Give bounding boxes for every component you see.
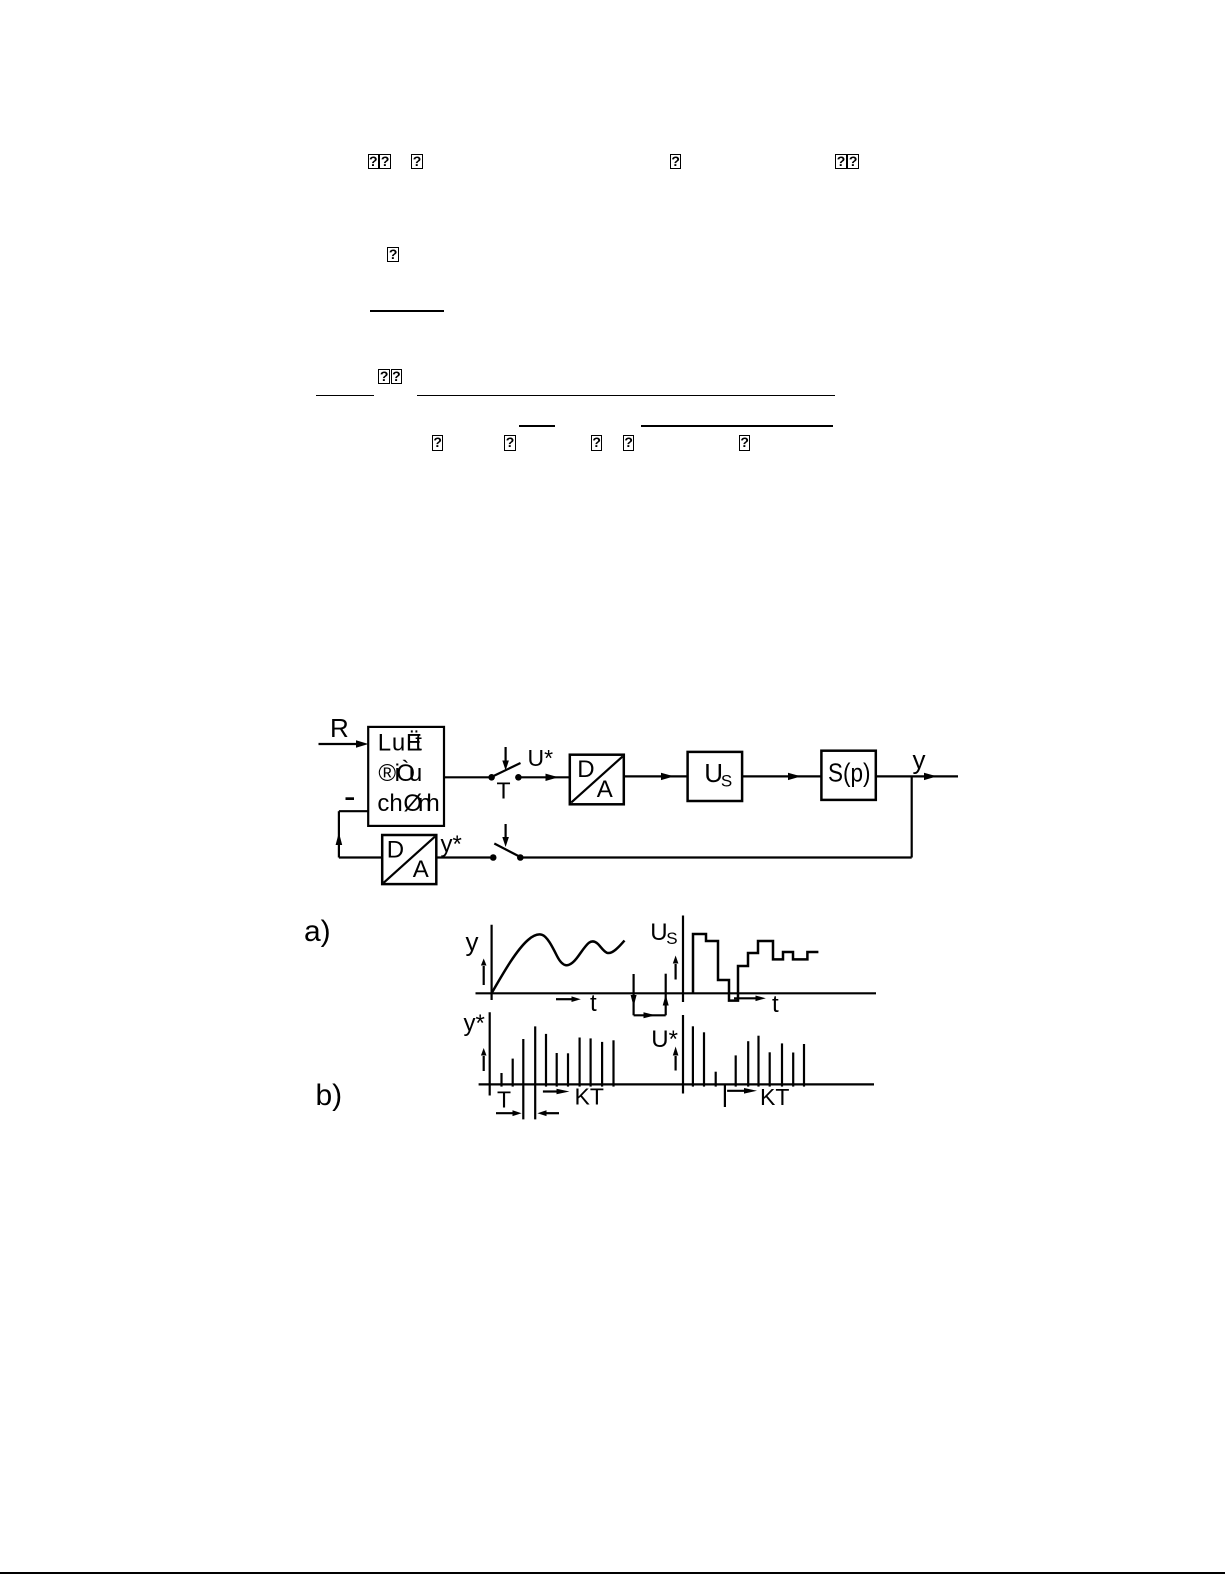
graph a t-axis (shared) (476, 992, 877, 994)
graph b y* impulse 6 (556, 1053, 558, 1087)
svg-text:A: A (413, 856, 429, 883)
svg-text:c: c (377, 790, 389, 817)
svg-text:D: D (577, 756, 594, 783)
svg-text:t: t (590, 990, 597, 1017)
graph a Us label (650, 919, 677, 948)
graph b U* impulse 7 (769, 1052, 771, 1086)
svg-text:u: u (392, 730, 405, 757)
wire D/A2 to summing path (339, 856, 382, 858)
wire feedback branch vertical (911, 776, 913, 857)
D/A U2 letter D (387, 837, 404, 864)
missing-glyph box row1-3 (411, 154, 423, 170)
underline row3 left (316, 395, 374, 397)
missing-glyph box row4-3 (591, 435, 603, 451)
wire output y with arrow (876, 773, 958, 780)
block S(p) plant (821, 751, 875, 800)
sampler switch T upper: left contact dot (488, 774, 495, 781)
missing-glyph box row1-2 (379, 154, 391, 170)
graph a staircase Us(t) (693, 934, 818, 1001)
graph b y* impulse 8 (578, 1038, 580, 1087)
D/A step symbol right line with up arrow (663, 974, 669, 1016)
svg-text:h: h (426, 790, 439, 817)
graph b y* impulse 4 with T tick (534, 1026, 536, 1119)
node U* label (528, 745, 554, 771)
sampler switch lower: blade (494, 844, 519, 857)
missing-glyph box row2 (387, 247, 399, 263)
graph a right t-axis arrow (734, 996, 766, 1002)
graph b T dim arrow right (496, 1110, 522, 1116)
graph b U* impulse 6 (757, 1036, 759, 1087)
label a) (304, 915, 331, 948)
sampler switch T upper: right contact dot (515, 774, 522, 781)
graph a y-axis small arrow (481, 959, 487, 986)
graph a response curve (492, 934, 625, 992)
graph b U* impulse 1 (692, 1026, 694, 1086)
sampler switch T upper: actuation arrow (502, 747, 509, 771)
missing-glyph box row1-4 (670, 154, 682, 170)
block D/A converter U2 (382, 835, 436, 884)
graph b y* impulse 9 (589, 1038, 591, 1086)
graph b KT label right (760, 1084, 789, 1110)
minus sign (346, 797, 355, 800)
svg-text:A: A (597, 776, 613, 803)
graph b y* impulse 2 (512, 1059, 514, 1087)
svg-text:L: L (378, 730, 391, 757)
wire lower sampler to D/A2 (437, 856, 491, 858)
graph b t-axis (shared) (479, 1083, 874, 1085)
missing-glyph box row4-5 (739, 435, 751, 451)
label T (497, 778, 511, 804)
graph b y* impulse 5 (545, 1034, 547, 1087)
graph a t label (590, 990, 597, 1017)
controller text line3 chOnh (377, 790, 439, 817)
graph a right t label (772, 991, 779, 1018)
wire Us to S(p) with arrow (742, 773, 821, 780)
missing-glyph box row1-1 (368, 154, 380, 170)
graph a Us axis small arrow (673, 956, 679, 980)
graph b y* impulse 7 (567, 1053, 569, 1086)
controller text line1 LuEt (378, 730, 423, 757)
svg-text:KT: KT (760, 1084, 789, 1110)
graph a axis y label (466, 927, 479, 957)
graph a y-axis (491, 925, 493, 1000)
svg-text:S: S (721, 771, 732, 790)
wire feedback up with arrow (336, 811, 343, 857)
sampler switch lower: right contact dot (517, 854, 524, 861)
Us block label (704, 758, 732, 790)
controller text line2 (r)iOu (378, 760, 422, 787)
wire sampler to D/A with arrow (522, 774, 570, 781)
underline row4 right (641, 425, 833, 427)
graph a t-axis arrow (556, 996, 581, 1002)
footer rule (0, 1572, 1225, 1574)
graph b y* axis (489, 1012, 491, 1095)
graph b y* label (464, 1010, 485, 1037)
node R input label (330, 713, 349, 743)
graph b U* impulse 10 (803, 1044, 805, 1087)
graph b y* impulse 11 (612, 1040, 614, 1086)
graph b T label (497, 1087, 511, 1113)
svg-text:y: y (913, 745, 926, 775)
D/A U1 letter A (597, 776, 613, 803)
block Us (688, 752, 743, 801)
graph b y* axis small arrow (481, 1048, 487, 1071)
missing-glyph box row4-4 (623, 435, 635, 451)
missing-glyph box row3-1 (378, 369, 390, 385)
D/A U1 letter D (577, 756, 594, 783)
wire feedback horizontal (520, 856, 912, 858)
S(p) label (828, 758, 871, 788)
block controller (Luat dieu chinh) (368, 727, 444, 826)
svg-text:U: U (650, 919, 667, 946)
svg-text:t: t (772, 991, 779, 1018)
svg-text:b): b) (316, 1079, 343, 1112)
graph b U* impulse 9 (792, 1053, 794, 1087)
graph b T dim arrow left (537, 1110, 559, 1116)
svg-text:y*: y* (441, 831, 462, 858)
missing-glyph box row4-2 (504, 435, 516, 451)
svg-text:y: y (466, 927, 479, 957)
label b) (316, 1079, 343, 1112)
D/A U2 letter A (413, 856, 429, 883)
node y* label (441, 831, 462, 858)
missing-glyph box row1-6 (847, 154, 859, 170)
svg-text:U*: U* (528, 745, 554, 771)
svg-text:h: h (389, 790, 402, 817)
graph b U* impulse 3 (715, 1072, 717, 1087)
D/A U1 diagonal (571, 756, 622, 802)
wire D/A to Us with arrow (624, 773, 688, 780)
graph b U* impulse 2 (703, 1032, 705, 1086)
graph b y* impulse 10 (601, 1042, 603, 1087)
wire into controller (339, 810, 368, 812)
underline row2 (370, 310, 444, 312)
missing-glyph box row1-5 (835, 154, 847, 170)
sampler switch T upper: blade (493, 763, 521, 777)
D/A step symbol left line with down arrow (631, 974, 637, 1015)
graph b KT arrow left (543, 1089, 570, 1095)
svg-text:t: t (415, 730, 422, 757)
wire controller to sampler (444, 776, 489, 778)
graph b U* impulse 4 (735, 1055, 737, 1086)
svg-text:R: R (330, 713, 349, 743)
svg-text:S: S (666, 929, 677, 948)
graph b U* axis small arrow (673, 1047, 679, 1071)
graph b KT arrow right (727, 1088, 757, 1094)
block D/A converter U1 (570, 755, 624, 805)
graph b U* axis (682, 1015, 684, 1094)
node y label (913, 745, 926, 775)
svg-text:U*: U* (651, 1026, 678, 1053)
svg-text:a): a) (304, 915, 331, 948)
svg-text:S(p): S(p) (828, 758, 871, 788)
svg-text:u: u (409, 760, 422, 787)
graph b y* impulse 3 with T tick (522, 1039, 524, 1119)
graph b U* label (651, 1026, 678, 1053)
svg-text:KT: KT (575, 1084, 604, 1110)
svg-text:T: T (497, 1087, 511, 1113)
svg-text:D: D (387, 837, 404, 864)
graph b U* tick negative sample (724, 1085, 726, 1107)
wire R input arrow (319, 740, 369, 748)
D/A step symbol bottom line with right arrow (634, 1012, 666, 1018)
D/A U2 diagonal (384, 837, 435, 883)
graph b U* impulse 8 (781, 1043, 783, 1086)
missing-glyph box row4-1 (432, 435, 444, 451)
graph b U* impulse 5 (747, 1041, 749, 1086)
graph b KT label left (575, 1084, 604, 1110)
sampler switch lower: left contact dot (490, 854, 497, 861)
graph a Us axis (682, 916, 684, 1003)
svg-text:T: T (497, 778, 511, 804)
graph b y* impulse 1 (500, 1073, 502, 1087)
missing-glyph box row3-2 (391, 369, 403, 385)
sampler switch lower: actuation arrow (502, 824, 509, 847)
underline row4 left (519, 425, 555, 427)
underline row3 right (417, 395, 836, 397)
svg-text:y*: y* (464, 1010, 485, 1037)
